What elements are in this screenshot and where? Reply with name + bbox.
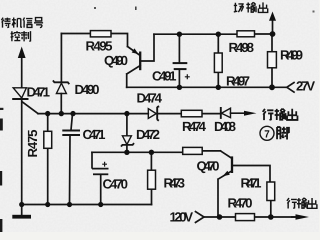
svg-text:R497: R497	[226, 74, 250, 89]
svg-text:D408: D408	[214, 119, 236, 134]
svg-text:120V: 120V	[170, 210, 194, 225]
svg-text:R470: R470	[228, 196, 253, 211]
svg-text:C491: C491	[152, 69, 177, 84]
svg-text:Q470: Q470	[197, 159, 220, 174]
svg-text:7: 7	[264, 129, 270, 141]
svg-text:Q490: Q490	[104, 53, 128, 68]
svg-text:C471: C471	[83, 127, 106, 142]
svg-text:D490: D490	[75, 82, 100, 97]
svg-text:R475: R475	[25, 130, 40, 158]
svg-text:R474: R474	[182, 119, 207, 134]
svg-text:R471: R471	[241, 176, 262, 191]
svg-text:R499: R499	[280, 48, 303, 63]
svg-text:C470: C470	[103, 177, 129, 192]
svg-text:27V: 27V	[296, 79, 315, 94]
svg-text:D471: D471	[27, 85, 51, 100]
svg-text:R498: R498	[229, 40, 255, 55]
svg-text:D474: D474	[137, 91, 163, 106]
svg-text:R495: R495	[86, 38, 113, 53]
svg-text:R473: R473	[164, 176, 186, 191]
svg-text:D472: D472	[136, 127, 160, 142]
